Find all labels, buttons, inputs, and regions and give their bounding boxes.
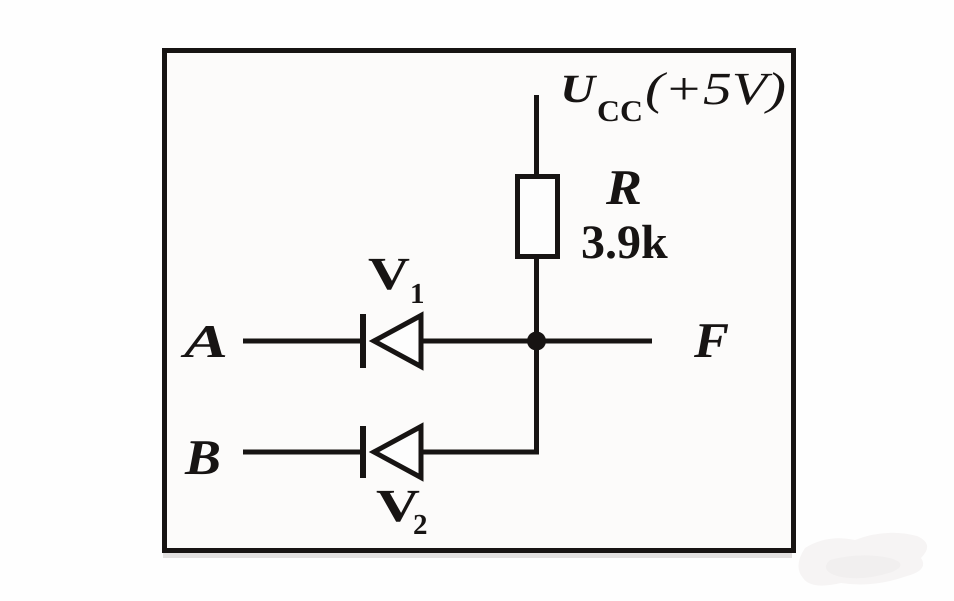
label V2 [376,480,428,541]
svg-text:3.9k: 3.9k [581,216,668,269]
wire: diode V1 output to node and F [422,339,652,344]
svg-text:R: R [605,159,642,215]
svg-text:1: 1 [410,278,425,310]
label Ucc (+5V) [560,63,786,128]
svg-text:2: 2 [413,509,428,541]
wire: input B segment [243,450,361,455]
diode V2 [363,426,421,478]
svg-text:(+5V): (+5V) [645,63,786,114]
svg-text:B: B [184,429,221,485]
svg-text:A: A [180,316,228,368]
node F junction dot [527,332,546,351]
svg-text:U: U [560,66,598,111]
resistor R [518,177,558,257]
diode V1 [363,314,421,368]
wire: input A segment [243,339,361,344]
wire: diode V2 output to corner [422,450,539,455]
wire: vertical from resistor to B-row corner [534,257,539,455]
label V1 [368,248,425,310]
svg-text:F: F [693,312,729,368]
svg-text:CC: CC [597,95,643,128]
svg-text:V: V [368,248,410,299]
wire: Ucc supply stub [534,95,539,176]
